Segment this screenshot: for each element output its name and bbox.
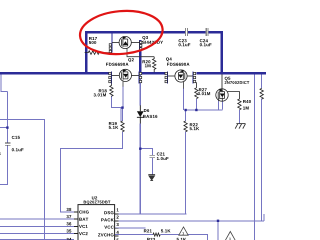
pin labels [79,210,89,213]
node dot (218,220.8) [217,220,219,222]
node dot (185.6,110) [184,109,186,111]
Q2 right pin bar [138,71,140,83]
Q3 left pin bar with squares [111,33,113,53]
transistor Q5 2N7002DICT [216,74,249,101]
capacitor C24 plates [206,28,208,36]
wire R22 lower vertical [185,132,187,214]
wire right resistor vertical x=261.7 [261,74,263,221]
wire thick vertical from Q3 right pins to rail x=140.3 [139,40,141,74]
wire Q5 source lead [221,101,223,109]
resistor R17 (500) horizontal zigzag [85,51,112,55]
wire R27 bottom lead [195,99,197,110]
wire stub to dot at (7.4,127.6) [0,127,7,129]
wire horizontal y=120 to x=44 vertical [0,120,44,240]
node mid rail to D6 (medium blue) [139,74,141,214]
resistor R23 labels (cut at bottom) [147,238,155,240]
left pin stubs [74,212,78,234]
wire U2 left pin wires 37,36,35,34 [0,218,74,220]
wire vertical from PACK dot down [217,221,219,240]
resistor R18 (3.01M) vertical zigzag [110,83,113,97]
Q4 right pin bar [192,71,194,83]
pin numbers right [117,208,119,211]
wire thick top bypass rail y=32 [85,31,222,33]
wire R18 bottom link [111,97,122,108]
wire main thick rail left segment [0,31,266,74]
resistor R19 (5.1K) vertical zigzag [121,121,124,132]
wire R40 bottom lead [238,110,240,123]
ground below C21 [148,175,155,181]
gate jog from Q3 circle bottom to R20 top [127,48,154,57]
wire right area vertical x=254 [253,74,255,240]
warning triangle 1 on R21 wire [179,227,188,235]
wire C15 vertical [0,92,7,185]
capacitor C21 [150,155,156,158]
resistor right edge vertical zigzag x=261.7 [260,88,263,99]
red highlight ellipse annotation [78,8,164,58]
wire DSG pin1 net [115,213,187,215]
capacitor C15 [5,143,10,145]
ground below R40 (chassis style) [235,124,245,129]
wire thick vertical riser x=86 [85,32,87,73]
Q4 left pin bar [167,71,169,83]
text fragment at left edge [0,153,1,156]
capacitor C23 plates [186,28,188,36]
right pin stubs [115,214,119,236]
resistor R21 (5.1K) horizontal zigzag [153,233,160,236]
Q4 body [168,70,193,82]
node dot (7.4,127.6) [6,126,8,128]
wire PACK pin2 net [115,214,264,221]
resistor R40 (1M) vertical zigzag with top link [228,92,241,110]
Q2 body [112,69,140,81]
Q2 left pin bar [110,71,112,83]
resistor R20 (1M) vertical zigzag [153,57,156,72]
resistor R27 (3.01M) vertical zigzag [193,83,198,99]
wire Q2 gate lead lower part [120,108,122,122]
thin blue wires [0,74,264,240]
wire CHG gate path: R19 vertical, corner to pin38 [122,86,125,121]
node dot (196.4,110) [195,109,197,111]
wire left edge vertical to C15 jog [1,74,7,91]
Q3 right pin squares [140,41,142,50]
transistor Q2 FDS6690A [106,58,142,86]
transistor Q4 FDS6690A (mirrored) [165,57,196,88]
transistor Q3 SI4435DY [109,33,163,53]
node dot (121.2,107.5) [121,106,123,108]
wire thick mid rail segment between Q2 and Q4 [142,72,165,74]
wire Q5 gate lead [217,101,219,110]
wire VCC pin3 net [115,227,146,229]
warning triangle 2 (cut at bottom edge) [225,232,235,240]
Q3 body [112,36,140,48]
wire thick right drop x=222 [221,31,223,73]
wire ZVCHG pin4 net with R21 [115,235,208,240]
wire thick rail right segment [196,72,266,74]
node dot (140.3,148.7) [139,148,141,150]
diode D6 BAS16 [139,105,141,123]
resistor R22 (5.1K) vertical zigzag [184,121,187,132]
wire C21 branch [140,149,152,175]
IC U2 BQ20Z75DBT [66,196,118,240]
pin numbers left [66,208,71,211]
wire Q4 gate vertical and horizontal y=110 [183,88,185,121]
